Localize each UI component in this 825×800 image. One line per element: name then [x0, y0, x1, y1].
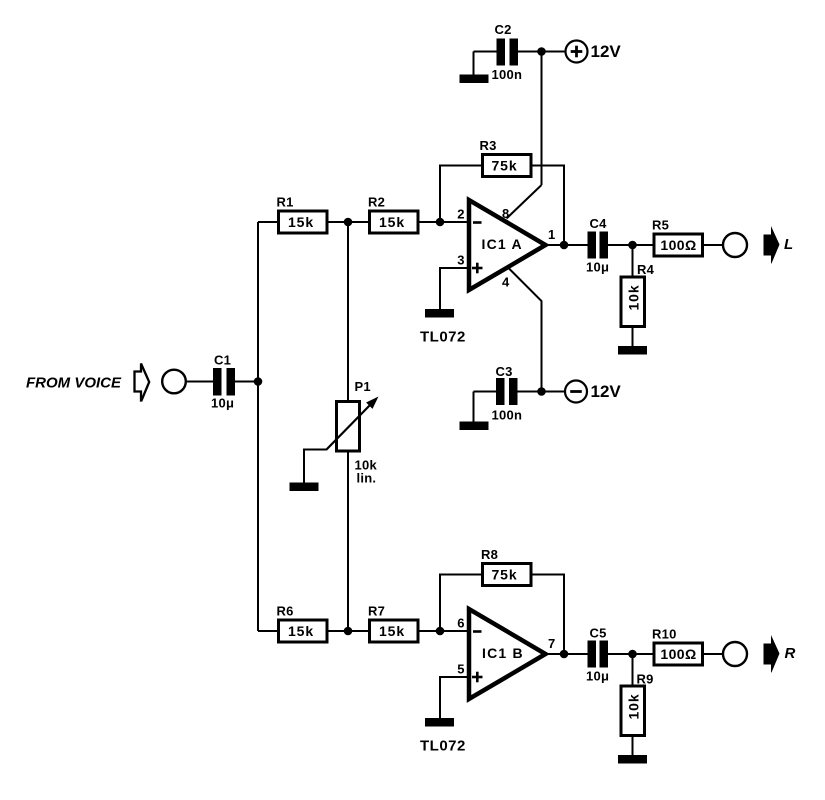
wire +12V bus down: [541, 52, 543, 186]
wire R2 to op-amp pin 2: [418, 221, 467, 223]
wire op-amp B output to C5: [545, 653, 588, 655]
svg-text:100n: 100n: [492, 67, 523, 82]
ground C3: [460, 422, 489, 431]
pin 5 plus sign: [472, 672, 483, 683]
svg-text:R1: R1: [277, 195, 294, 210]
wire pin 4 diagonal down to C3 node: [509, 269, 542, 392]
wire op-amp A output to C4: [545, 244, 588, 246]
wire C3 ground drop: [473, 392, 475, 423]
op-amp U1B triangle: [469, 609, 546, 699]
svg-text:R: R: [785, 645, 796, 662]
resistor R2: [368, 195, 418, 234]
svg-text:C5: C5: [590, 626, 607, 641]
wire feedback up to R3: [440, 166, 484, 223]
wire C2 left to ground drop: [474, 51, 497, 53]
+12V supply terminal: [566, 41, 622, 63]
op-amp U1A triangle: [469, 200, 546, 290]
output arrow L: [764, 226, 780, 264]
svg-text:R6: R6: [277, 604, 294, 619]
svg-text:R10: R10: [652, 627, 677, 642]
node C1 output junction: [254, 377, 263, 386]
resistor R4: [621, 262, 655, 327]
svg-text:TL072: TL072: [420, 329, 466, 346]
ground IC1B pin5: [425, 718, 454, 727]
ground IC1A pin3: [425, 309, 454, 318]
svg-text:3: 3: [457, 253, 464, 268]
ground C2: [460, 75, 489, 84]
ground R4: [618, 346, 647, 355]
wire R8 to output node: [531, 575, 564, 655]
svg-text:10μ: 10μ: [211, 396, 234, 411]
node C5/R9/R10 junction: [628, 650, 637, 659]
wire C2 ground drop: [473, 52, 475, 76]
wire C5 to R10: [608, 653, 654, 655]
svg-text:IC1 A: IC1 A: [482, 236, 523, 252]
wire C1 to input bus: [235, 381, 258, 383]
pin 2 minus sign: [473, 221, 482, 224]
svg-text:75k: 75k: [491, 567, 517, 583]
output terminal circle L: [723, 233, 747, 257]
capacitor C5: [586, 626, 609, 684]
svg-text:15k: 15k: [288, 214, 314, 230]
capacitor C1: [211, 353, 235, 411]
wire R6 to R7: [327, 630, 370, 632]
svg-text:R9: R9: [637, 672, 654, 687]
capacitor C2: [492, 22, 523, 82]
-12V supply terminal: [565, 381, 621, 403]
svg-text:R7: R7: [368, 604, 385, 619]
svg-text:10k: 10k: [626, 284, 642, 310]
pin 6 minus sign: [473, 630, 482, 633]
wire pin 8 diagonal: [507, 185, 542, 219]
resistor R3: [480, 138, 532, 177]
svg-text:100Ω: 100Ω: [660, 646, 696, 662]
wire bus to R6: [258, 630, 280, 632]
svg-text:75k: 75k: [491, 158, 517, 174]
capacitor C3: [492, 364, 523, 423]
svg-text:5: 5: [457, 662, 464, 677]
svg-text:1: 1: [548, 227, 555, 242]
op-amp U1A labels: [457, 206, 555, 290]
svg-text:C4: C4: [590, 216, 608, 231]
svg-text:8: 8: [502, 206, 509, 221]
wire input circle to C1: [186, 381, 213, 383]
ground R9: [618, 755, 647, 764]
resistor R6: [277, 604, 328, 643]
svg-text:C1: C1: [214, 353, 231, 368]
capacitor C4: [586, 216, 609, 275]
node R6/R7/P1 junction: [344, 627, 353, 636]
potentiometer P1: [326, 379, 379, 486]
svg-text:2: 2: [457, 207, 464, 222]
svg-text:6: 6: [457, 616, 464, 631]
svg-text:10μ: 10μ: [586, 260, 609, 275]
svg-text:10k: 10k: [626, 693, 642, 719]
wire node down to R4: [632, 245, 634, 278]
resistor R5: [652, 218, 703, 257]
wire pin 3 to ground: [440, 268, 467, 309]
wire P1 bus bottom: [347, 451, 349, 632]
svg-text:12V: 12V: [591, 382, 622, 401]
output arrow R: [764, 635, 780, 673]
wire node down to R9: [632, 654, 634, 687]
node C4/R4/R5 junction: [628, 241, 637, 250]
wire R7 to op-amp pin 6: [418, 630, 467, 632]
svg-text:10μ: 10μ: [586, 669, 609, 684]
wire P1 wiper to ground: [304, 450, 326, 484]
output terminal circle R: [723, 642, 747, 666]
node R7/feedback junction: [436, 627, 445, 636]
wire R3 to output node: [531, 166, 564, 246]
svg-text:7: 7: [548, 636, 555, 651]
svg-text:R2: R2: [368, 195, 385, 210]
wire bus to R1: [258, 221, 280, 223]
svg-text:C2: C2: [495, 22, 512, 37]
svg-text:12V: 12V: [591, 42, 622, 61]
wire R1 to R2: [327, 221, 370, 223]
op-amp U1B labels: [457, 616, 555, 677]
svg-text:R8: R8: [481, 547, 498, 562]
svg-text:R3: R3: [480, 138, 497, 153]
wire C3 left to ground drop: [474, 391, 497, 393]
svg-text:lin.: lin.: [357, 471, 377, 486]
svg-text:4: 4: [502, 275, 510, 290]
resistor R9: [621, 672, 654, 736]
svg-text:L: L: [784, 236, 793, 253]
svg-text:C3: C3: [496, 364, 513, 379]
svg-text:TL072: TL072: [420, 738, 466, 755]
svg-text:100Ω: 100Ω: [660, 237, 696, 253]
svg-text:15k: 15k: [288, 623, 314, 639]
wire P1 bus top: [347, 222, 349, 402]
svg-text:P1: P1: [355, 379, 371, 394]
wire feedback up to R8: [440, 575, 484, 632]
wire C2 right to +12V circle: [518, 51, 566, 53]
wire C3 right to -12V circle: [518, 391, 566, 393]
wire input bus vertical: [257, 222, 259, 631]
wire R4 to ground: [632, 327, 634, 348]
resistor R1: [277, 195, 328, 234]
wire R9 to ground: [632, 736, 634, 757]
svg-text:15k: 15k: [379, 214, 405, 230]
input arrow: [135, 364, 150, 401]
svg-text:R4: R4: [637, 262, 655, 277]
svg-text:R5: R5: [652, 218, 669, 233]
resistor R10: [652, 627, 703, 666]
node R2/feedback junction: [436, 218, 445, 227]
wire C4 to R5: [608, 244, 654, 246]
svg-text:IC1 B: IC1 B: [482, 645, 524, 661]
wire R5 to output circle: [703, 244, 724, 246]
ground P1: [290, 483, 319, 492]
pin 3 plus sign: [472, 263, 483, 274]
input terminal circle: [162, 370, 186, 394]
resistor R8: [481, 547, 531, 586]
svg-text:FROM VOICE: FROM VOICE: [26, 375, 122, 392]
node output A: [560, 241, 569, 250]
wire R10 to output circle: [703, 653, 724, 655]
svg-text:15k: 15k: [379, 623, 405, 639]
wire pin 5 to ground: [440, 677, 467, 718]
node R1/R2/P1 junction: [344, 218, 353, 227]
node +12V junction: [537, 47, 546, 56]
node output B: [560, 650, 569, 659]
node -12V junction: [537, 387, 546, 396]
resistor R7: [368, 604, 418, 643]
svg-text:100n: 100n: [492, 408, 523, 423]
